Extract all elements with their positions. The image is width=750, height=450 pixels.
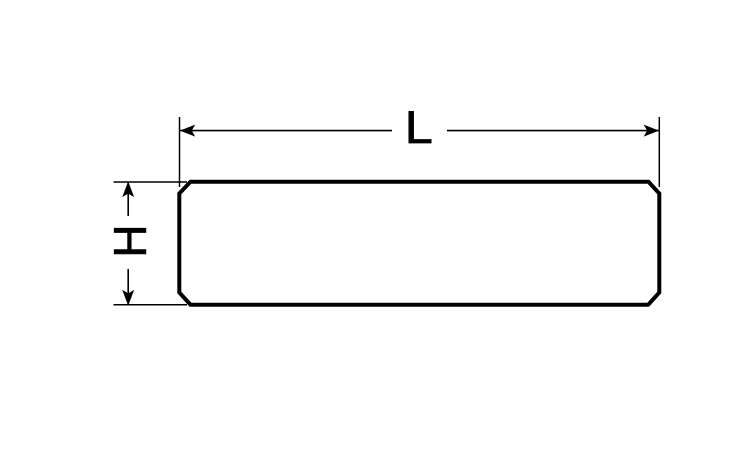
wire: H extension line bottom bbox=[114, 304, 188, 306]
wire: H extension line top bbox=[114, 181, 188, 183]
node H (label) bbox=[114, 228, 146, 254]
wire: H dimension line lower segment bbox=[127, 269, 129, 305]
H arrowhead down bbox=[123, 291, 133, 305]
L arrowhead left bbox=[181, 125, 194, 135]
wire: L extension line right bbox=[658, 117, 660, 187]
H arrowhead up bbox=[123, 183, 133, 197]
wire: L extension line left bbox=[179, 117, 181, 187]
wire: L dimension line right segment bbox=[447, 130, 659, 132]
L arrowhead right bbox=[645, 125, 658, 135]
wire: L dimension line left segment bbox=[180, 130, 392, 132]
wire: H dimension line upper segment bbox=[127, 182, 129, 216]
key body (chamfered rectangle) bbox=[179, 182, 659, 305]
node L (label) bbox=[409, 111, 431, 143]
